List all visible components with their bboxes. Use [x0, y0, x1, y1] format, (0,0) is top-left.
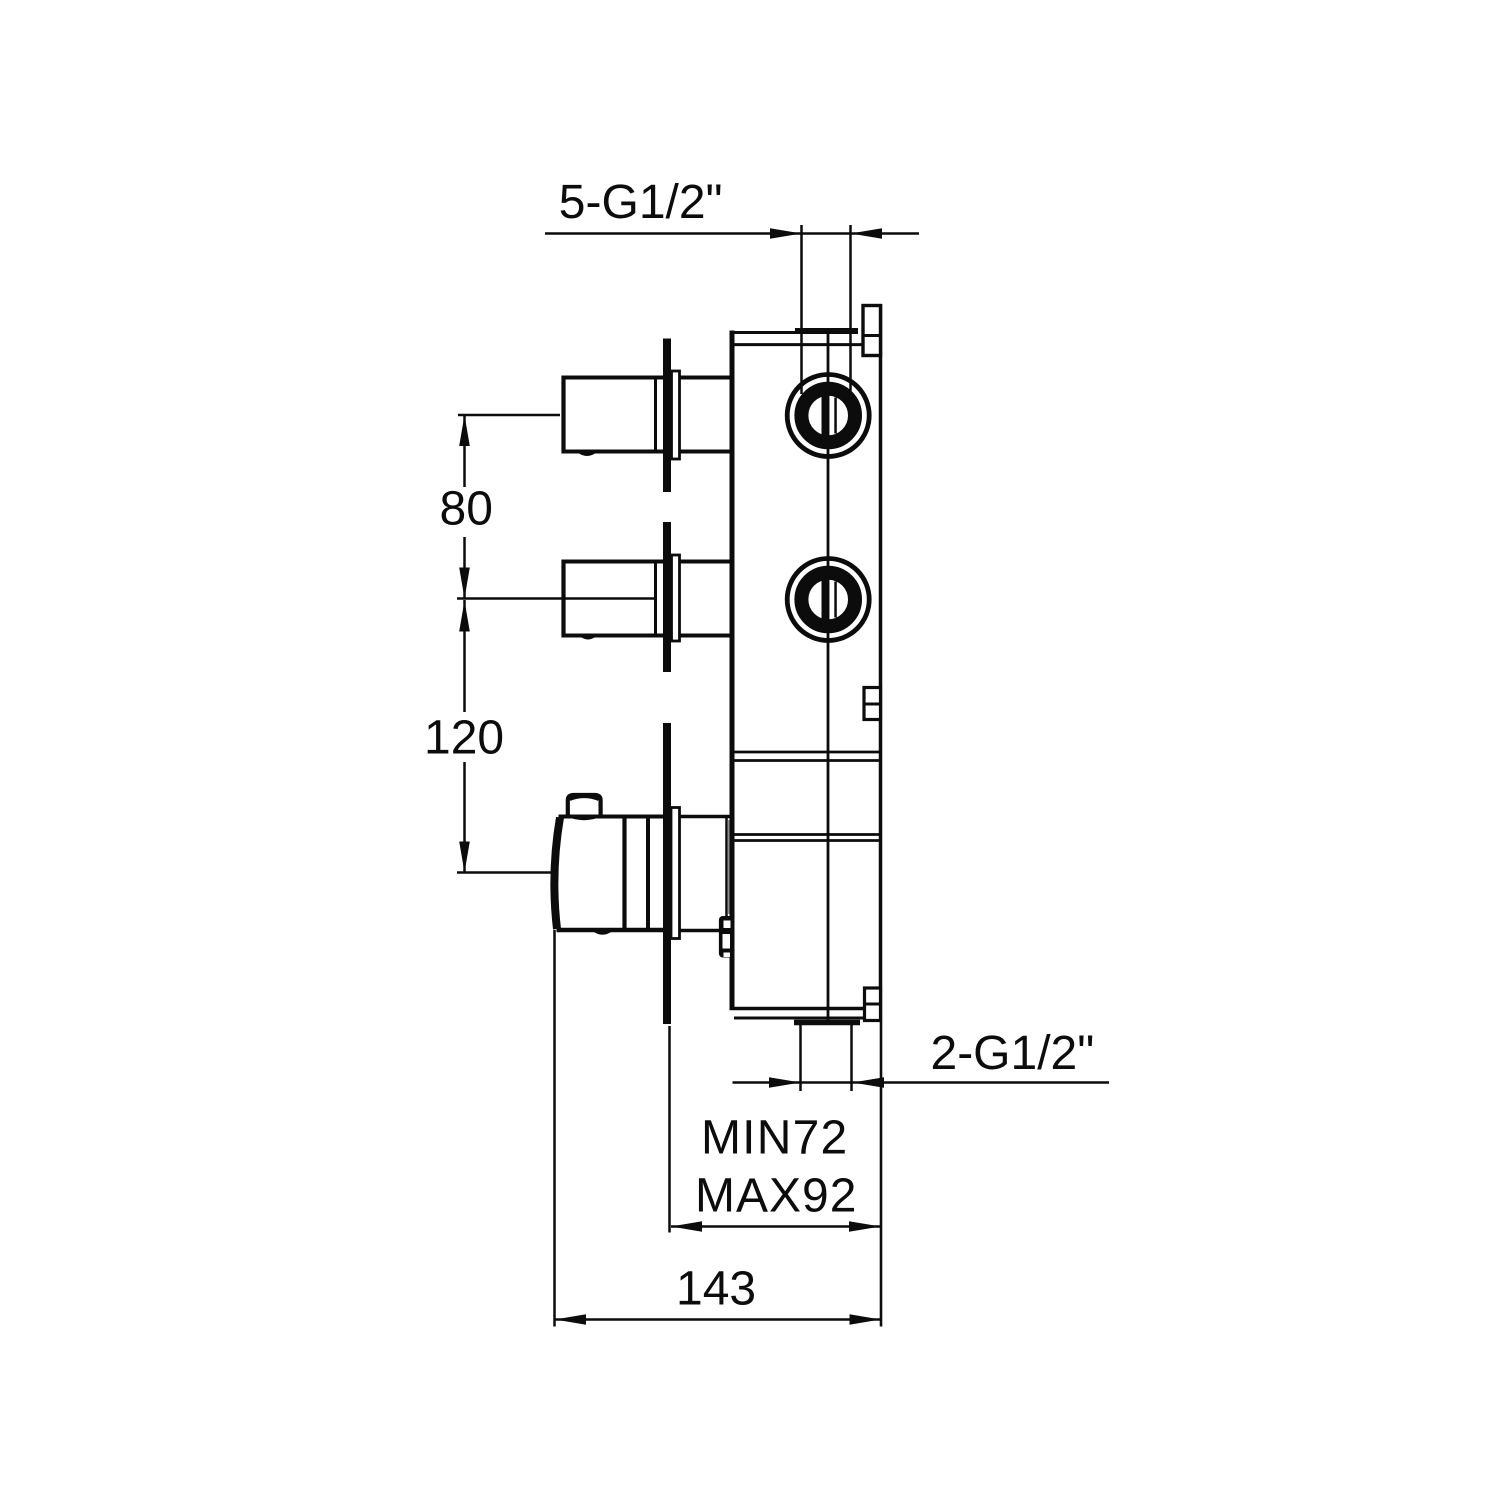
dimension MAX92 line: [671, 1225, 881, 1228]
svg-text:MAX92: MAX92: [695, 1170, 857, 1223]
arrowhead bottom left pointing right: [769, 1077, 801, 1088]
dimension 120 line upper segment: [463, 600, 466, 712]
dimension 120 arrow up: [459, 601, 470, 632]
arrowhead MAX92 left pointing left: [671, 1221, 702, 1232]
port circle 1 slot bar: [822, 396, 830, 435]
body interior line pair 2 lower: [732, 839, 881, 842]
flange 1: [672, 371, 680, 459]
port circle 1 slot line: [834, 398, 837, 434]
stub 1 end cap: [654, 378, 657, 452]
body interior line pair 2 upper: [732, 833, 881, 836]
handle knob top rim: [570, 796, 599, 799]
flange 3 (cartridge): [671, 808, 680, 939]
handle tick mark: [593, 931, 613, 935]
middle clip divider: [864, 703, 881, 706]
body bottom port bar: [794, 1020, 860, 1026]
extension line top port left edge: [800, 225, 803, 394]
top bracket: [863, 306, 881, 356]
bottom clip divider: [865, 1003, 881, 1006]
arrowhead bottom right pointing left: [853, 1077, 885, 1088]
extension line top port right edge: [849, 225, 852, 391]
port circle 1 outer: [787, 375, 869, 457]
arrowhead 143 right pointing right: [850, 1314, 881, 1325]
body bottom second line: [734, 1017, 865, 1020]
dimension 80/120 shared extension line: [457, 597, 655, 600]
dimension 80 extension line top: [458, 414, 560, 417]
extension line handle left: [553, 930, 556, 1327]
stub 1 bottom edge: [562, 450, 731, 454]
body right edge: [879, 304, 883, 1021]
body top second line: [732, 343, 863, 346]
handle knob cap: [568, 795, 601, 816]
port circle 1 ring: [801, 389, 855, 443]
port circle 2 slot bar: [822, 580, 830, 619]
arrowhead left of 5-G1/2 pointing right: [770, 228, 802, 239]
dimension 80 arrow down: [459, 568, 470, 599]
dimension line 5-G1/2: [545, 232, 919, 235]
port circle 2 outer: [787, 559, 869, 641]
stub 2 top edge: [562, 560, 731, 564]
port circle 2 ring: [801, 573, 855, 627]
body right edge extension line: [880, 1021, 883, 1327]
dimension 120 arrow down: [459, 842, 470, 873]
latch detail at body edge: [719, 916, 733, 958]
arrowhead MAX92 right pointing right: [849, 1221, 881, 1232]
extension line bottom port left: [799, 1025, 802, 1091]
dimension 143 line: [555, 1318, 881, 1321]
svg-text:143: 143: [676, 1263, 756, 1316]
stub 1 tick mark: [578, 453, 597, 457]
wall plate bar segment 1: [663, 339, 671, 493]
svg-text:MIN72: MIN72: [701, 1112, 848, 1165]
stub 2 left cap: [561, 560, 565, 638]
handle divider 2: [646, 817, 650, 931]
cartridge back section right edge: [725, 817, 728, 918]
handle bottom edge: [557, 928, 664, 933]
cartridge back section top edge: [680, 815, 732, 819]
stub 2 end cap: [654, 562, 657, 636]
extension line wall bar bottom: [668, 1026, 671, 1233]
body top edge: [730, 331, 797, 334]
svg-text:5-G1/2": 5-G1/2": [559, 176, 723, 229]
arrowhead 143 left pointing left: [555, 1314, 586, 1325]
handle top edge: [559, 815, 664, 819]
handle knob bottom arc: [570, 817, 598, 820]
dimension 120 line lower segment: [463, 762, 466, 873]
cartridge back section bottom edge: [680, 929, 732, 933]
flange 2: [672, 555, 680, 641]
stub 1 left cap: [561, 376, 565, 454]
body interior line pair 1 lower: [732, 759, 881, 762]
wall plate bar segment 3: [663, 723, 671, 1024]
bottom clip: [865, 988, 881, 1021]
wall plate bar segment 2: [663, 522, 671, 672]
dimension 2-G1/2 line: [733, 1081, 1110, 1084]
body interior line pair 1 upper: [732, 751, 881, 754]
dimension 80 line lower segment: [463, 537, 466, 599]
arrowhead right of 5-G1/2 pointing left: [851, 228, 883, 239]
stub 1 top edge: [562, 376, 731, 380]
top bracket divider: [863, 334, 881, 337]
stub 2 tick mark: [580, 636, 597, 640]
body bottom edge: [730, 1007, 865, 1011]
svg-text:80: 80: [440, 483, 493, 536]
cartridge back gray strip: [728, 820, 731, 914]
handle left arc: [554, 818, 560, 930]
handle divider 1: [622, 817, 626, 931]
stub 2 bottom edge: [562, 634, 731, 638]
svg-text:2-G1/2": 2-G1/2": [931, 1027, 1095, 1080]
dimension 80 arrow up: [459, 415, 470, 446]
body top port bar: [795, 328, 858, 334]
body left edge: [730, 331, 735, 1011]
port circle 2 slot line: [834, 582, 837, 618]
extension line bottom port right: [850, 1025, 853, 1091]
port centerline: [827, 333, 830, 1022]
dimension 120 extension line bottom: [457, 871, 554, 874]
middle clip: [864, 688, 881, 720]
dimension 80 line upper segment: [463, 415, 466, 487]
svg-text:120: 120: [424, 712, 504, 765]
